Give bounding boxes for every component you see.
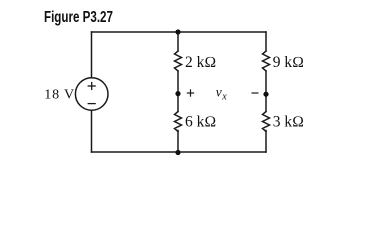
svg-text:vx: vx	[216, 84, 228, 102]
svg-text:6 kΩ: 6 kΩ	[185, 114, 216, 131]
svg-text:Figure P3.27: Figure P3.27	[44, 7, 113, 25]
svg-text:9 kΩ: 9 kΩ	[273, 54, 304, 71]
svg-text:2 kΩ: 2 kΩ	[185, 54, 216, 71]
svg-text:18 V: 18 V	[44, 88, 75, 103]
svg-text:3 kΩ: 3 kΩ	[273, 114, 304, 131]
